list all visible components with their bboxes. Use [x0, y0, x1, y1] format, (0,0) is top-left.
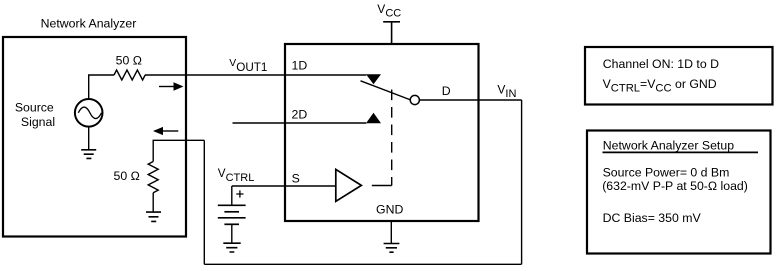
buffer: control driver triangle	[336, 169, 362, 201]
resistor R2	[148, 162, 158, 193]
contact: 2D throw (up triangle)	[366, 113, 381, 124]
svg-text:Network Analyzer: Network Analyzer	[41, 16, 137, 30]
battery plus sign	[236, 190, 243, 197]
wire: R2 top to corner	[153, 140, 204, 161]
wire: down leg outside analyzer	[203, 140, 205, 264]
wire: S pin to buffer	[232, 185, 336, 187]
wire: R1 to 1D pin	[145, 74, 366, 76]
switch arm: pole to 1D	[361, 81, 411, 100]
switch pole: D (open circle)	[410, 95, 419, 104]
contact: 1D throw (down triangle)	[366, 74, 381, 84]
svg-text:Signal: Signal	[21, 115, 55, 129]
svg-text:Network Analyzer Setup: Network Analyzer Setup	[603, 138, 734, 152]
svg-text:VOUT1: VOUT1	[229, 58, 267, 74]
AC source: Source Signal generator	[75, 99, 103, 127]
svg-text:VCTRL=VCC or GND: VCTRL=VCC or GND	[603, 77, 717, 95]
svg-text:VIN: VIN	[497, 83, 516, 100]
svg-text:Channel ON: 1D to D: Channel ON: 1D to D	[603, 57, 719, 71]
svg-text:Source Power= 0 d Bm: Source Power= 0 d Bm	[603, 166, 730, 180]
svg-text:50 Ω: 50 Ω	[116, 54, 142, 68]
ground: source signal ground	[81, 126, 96, 158]
wire: right riser to VIN	[521, 100, 523, 264]
wire: D output to VIN	[419, 99, 522, 101]
box: Channel ON note	[585, 47, 773, 105]
dashed control line: horizontal dash from buffer	[372, 185, 392, 187]
ground: battery ground	[223, 243, 240, 252]
svg-text:VCTRL: VCTRL	[218, 167, 255, 184]
svg-text:GND: GND	[376, 202, 403, 216]
rule: title underline	[603, 151, 759, 153]
wire: source top to R1	[89, 75, 114, 99]
svg-text:S: S	[292, 171, 300, 185]
svg-text:D: D	[442, 84, 451, 98]
svg-text:(632-mV P-P at 50-Ω load): (632-mV P-P at 50-Ω load)	[602, 179, 748, 193]
battery: VCTRL source	[218, 186, 246, 243]
box: Network Analyzer Setup note	[587, 131, 771, 254]
arrow: source current direction (right)	[159, 82, 184, 90]
ground: R2 ground	[146, 212, 161, 221]
wire: GND pin stub	[390, 221, 392, 243]
power: VCC bar and stub	[383, 22, 400, 43]
box: Network Analyzer enclosure	[3, 37, 186, 237]
svg-text:2D: 2D	[292, 107, 308, 121]
resistor R1	[114, 70, 145, 80]
svg-text:DC Bias= 350 mV: DC Bias= 350 mV	[603, 211, 702, 225]
wire: 2D stub	[233, 122, 367, 124]
box: switch IC body	[285, 44, 479, 221]
svg-text:Source: Source	[15, 100, 54, 114]
dashed control line: vertical	[391, 90, 393, 186]
arrow: return current direction (left)	[153, 127, 178, 135]
ground: switch GND	[384, 244, 400, 253]
wire: R2 to ground	[152, 193, 154, 212]
svg-text:VCC: VCC	[377, 2, 401, 20]
svg-text:50 Ω: 50 Ω	[114, 169, 140, 183]
wire: bottom return run	[204, 263, 521, 265]
svg-text:1D: 1D	[292, 59, 308, 73]
